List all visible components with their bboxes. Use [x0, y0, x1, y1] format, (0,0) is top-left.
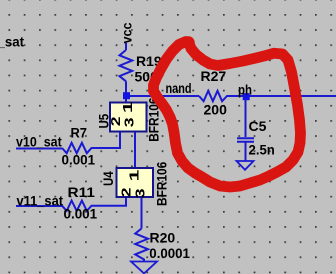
svg-text:3: 3	[122, 117, 136, 127]
svg-text:ph: ph	[238, 81, 252, 97]
svg-text:2: 2	[119, 188, 133, 198]
svg-text:vcc: vcc	[119, 23, 135, 44]
svg-text:3: 3	[133, 188, 147, 198]
svg-text:2: 2	[109, 117, 123, 127]
svg-text:U4: U4	[100, 171, 116, 186]
svg-text:0.001: 0.001	[64, 206, 98, 221]
svg-text:0.001: 0.001	[62, 152, 96, 167]
svg-text:BFR106: BFR106	[154, 162, 170, 206]
svg-text:nand: nand	[166, 81, 192, 97]
svg-text:v10_sat: v10_sat	[16, 134, 62, 150]
svg-text:1: 1	[126, 169, 141, 181]
svg-text:C5: C5	[249, 118, 267, 134]
svg-text:200: 200	[204, 102, 228, 118]
svg-text:R7: R7	[71, 125, 87, 141]
svg-text:R20: R20	[150, 230, 176, 246]
svg-text:R11: R11	[68, 186, 95, 201]
svg-text:R27: R27	[201, 68, 227, 84]
svg-text:v11_sat: v11_sat	[17, 193, 64, 209]
svg-text:0.0001: 0.0001	[149, 246, 190, 261]
svg-text:2.5n: 2.5n	[249, 142, 275, 157]
svg-text:1: 1	[120, 101, 135, 113]
svg-text:_sat: _sat	[0, 34, 25, 49]
